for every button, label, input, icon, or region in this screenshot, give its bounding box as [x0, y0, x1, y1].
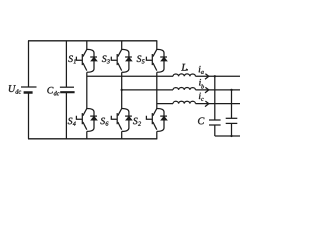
label L (filter inductor) [181, 64, 186, 71]
wire: phase b drop to filter cap 2 [231, 90, 233, 118]
top DC bus [28, 40, 157, 42]
wire: filter neutral bus [215, 135, 240, 137]
capacitor Cdc plates [60, 87, 75, 92]
wire: leg c lower [156, 131, 158, 138]
wire: leg b upper [121, 41, 123, 50]
label S5 [137, 55, 145, 63]
transistor S3 (IGBT) [111, 49, 121, 70]
transistor S2 (IGBT) [146, 109, 156, 130]
wire: phase c to right edge [196, 103, 241, 105]
label S2 [133, 118, 141, 126]
transistor S1 (IGBT) [76, 49, 86, 70]
wire: leg c upper [156, 41, 158, 50]
diode D4 (antiparallel) [87, 109, 97, 132]
wire: phase a from leg to inductor [87, 75, 173, 77]
label C (filter capacitor) [198, 117, 204, 124]
battery Udc plates [21, 87, 37, 93]
wire: source branch upper [28, 41, 30, 87]
wire: leg a upper [86, 41, 88, 50]
wire: phase b from leg to inductor [122, 89, 173, 91]
wire: leg b middle [121, 72, 123, 108]
inductor L phase c [173, 101, 196, 103]
transistor S5 (IGBT) [146, 49, 156, 70]
capacitor C filter cap 2 [226, 118, 238, 136]
arrow: current ia direction [205, 74, 209, 80]
node: junction cap 2 / neutral bus [230, 135, 232, 137]
wire: DC-link cap branch lower [65, 92, 67, 139]
wire: phase a drop to filter cap 1 [214, 76, 216, 120]
diode D1 (antiparallel) [87, 49, 97, 72]
node: junction phase b / cap 2 [230, 89, 232, 91]
transistor S4 (IGBT) [76, 109, 86, 130]
label S6 [100, 118, 108, 126]
label S3 [102, 55, 110, 63]
wire: leg c middle [156, 72, 158, 108]
diode D3 (antiparallel) [122, 49, 132, 72]
bottom DC bus [28, 138, 157, 140]
wire: phase a to right edge [196, 75, 241, 77]
label Cdc [47, 87, 59, 95]
capacitor C filter cap 1 [209, 120, 221, 136]
wire: phase c from leg to inductor [157, 103, 173, 105]
diode D5 (antiparallel) [157, 49, 167, 72]
diode D2 (antiparallel) [157, 109, 167, 132]
arrow: current ic direction [205, 101, 209, 107]
wire: leg a lower [86, 131, 88, 138]
wire: DC-link cap branch upper [65, 41, 67, 87]
label S1 [68, 55, 75, 63]
arrow: current ib direction [205, 87, 209, 93]
transistor S6 (IGBT) [111, 109, 121, 130]
label S4 [68, 118, 76, 126]
label Udc [9, 85, 21, 93]
label ib [199, 79, 204, 88]
label ia [199, 66, 204, 74]
wire: leg b lower [121, 131, 123, 138]
node: junction phase b tap [121, 89, 123, 91]
wire: leg a middle [86, 72, 88, 108]
label ic [199, 93, 204, 101]
node: junction phase a / cap 1 [214, 75, 216, 77]
wire: source branch lower [28, 93, 30, 139]
inductor L phase a [173, 74, 196, 76]
label L subscript mark [186, 69, 188, 71]
inductor L phase b [173, 87, 196, 89]
wire: phase b to right edge [196, 89, 241, 91]
diode D6 (antiparallel) [122, 109, 132, 132]
